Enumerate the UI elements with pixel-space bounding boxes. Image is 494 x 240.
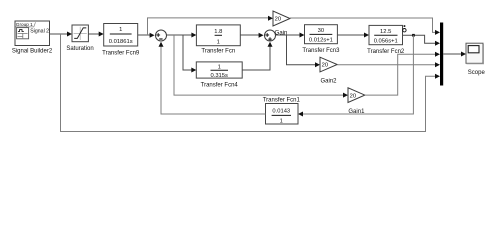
svg-text:0.0143: 0.0143 (272, 109, 290, 115)
wire Sum2 to Transfer Fcn3 (276, 34, 302, 36)
svg-text:Transfer Fcn4: Transfer Fcn4 (201, 83, 239, 89)
wire branch up to Gain (top) (148, 18, 270, 35)
svg-text:0.01861s: 0.01861s (109, 39, 133, 45)
wire Signal Builder2 to Saturation (50, 33, 69, 35)
svg-text:Gain2: Gain2 (320, 79, 337, 85)
svg-text:1.8: 1.8 (214, 29, 222, 35)
svg-text:20: 20 (275, 17, 281, 23)
svg-text:20: 20 (322, 63, 328, 69)
wire Sum1 to Transfer Fcn (167, 34, 194, 36)
wire Transfer Fcn4 to Sum2 bottom (242, 45, 270, 70)
svg-text:Scope: Scope (468, 70, 486, 76)
wire Saturation to Transfer Fcn9 (88, 33, 100, 35)
wire Transfer Fcn1 to Sum1 bottom port (161, 45, 266, 114)
svg-text:Gain1: Gain1 (348, 109, 365, 115)
svg-text:1: 1 (280, 119, 283, 125)
wire Transfer Fcn to Sum2 (240, 34, 261, 36)
svg-text:30: 30 (318, 28, 324, 34)
junction dot on Transfer Fcn2 output (412, 34, 415, 37)
block Transfer Fcn1 (263, 98, 301, 125)
signal name label on Transfer Fcn2 output wire (403, 29, 406, 32)
mux Mux (440, 23, 443, 86)
wire reference branch down to bottom loop into Mux input5 (61, 34, 437, 132)
wire Transfer Fcn9 to Sum1 (138, 34, 152, 36)
svg-text:Transfer Fcn1: Transfer Fcn1 (263, 98, 301, 104)
wire Gain to Mux input1 (290, 18, 437, 32)
gain Gain1 (348, 88, 365, 115)
svg-text:1: 1 (217, 40, 220, 46)
wire Mux to Scope (443, 53, 462, 55)
block Saturation (66, 25, 93, 52)
wire branch Sum1 output to Gain1 long line (174, 35, 345, 95)
block Transfer Fcn2 (367, 25, 405, 55)
block Signal Builder2 (12, 21, 53, 54)
wire Transfer Fcn3 to Transfer Fcn2 (337, 34, 365, 36)
wire Transfer Fcn2 to Mux input2 (403, 35, 437, 43)
block Transfer Fcn (196, 25, 240, 54)
svg-text:Gain: Gain (275, 30, 288, 36)
svg-text:0.056s+1: 0.056s+1 (374, 38, 398, 44)
svg-text:20: 20 (350, 93, 356, 99)
svg-text:12.5: 12.5 (380, 29, 391, 35)
svg-text:1: 1 (119, 27, 122, 33)
svg-text:Group 1: Group 1 (16, 22, 33, 27)
wire branch Sum2 output down to Gain2 (287, 35, 317, 65)
svg-text:Signal 2: Signal 2 (30, 29, 49, 35)
block Transfer Fcn4 (196, 62, 242, 89)
block Transfer Fcn3 (302, 25, 340, 54)
block Scope (466, 43, 485, 76)
svg-text:Transfer Fcn9: Transfer Fcn9 (102, 50, 140, 56)
svg-text:Saturation: Saturation (66, 46, 93, 52)
wire Gain1 to Mux input3 (365, 54, 437, 95)
sum junction Sum1 (156, 30, 167, 41)
gain Gain2 (320, 57, 337, 84)
sum junction Sum2 (265, 30, 276, 41)
svg-text:0.315s: 0.315s (210, 73, 228, 79)
svg-text:Transfer Fcn3: Transfer Fcn3 (302, 48, 340, 54)
svg-text:Transfer Fcn: Transfer Fcn (201, 48, 235, 54)
wire branch down from Transfer Fcn2 output to Transfer Fcn1 (302, 35, 413, 114)
block Transfer Fcn9 (102, 24, 140, 57)
wire Gain2 to Mux input4 (337, 64, 436, 66)
wire branch Sum1 output down to Transfer Fcn4 (183, 35, 193, 70)
svg-text:0.012s+1: 0.012s+1 (309, 38, 333, 44)
gain Gain (top) (273, 11, 290, 36)
svg-text:Signal Builder2: Signal Builder2 (12, 48, 53, 54)
